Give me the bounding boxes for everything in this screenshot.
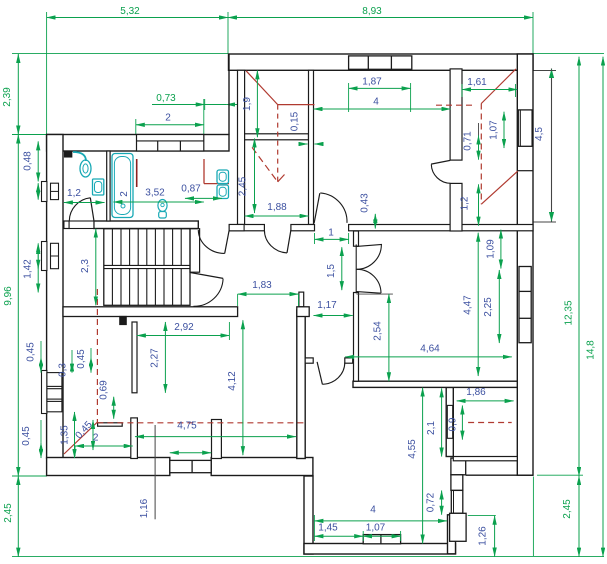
svg-text:1,83: 1,83 <box>252 280 272 291</box>
dimension 1,16 <box>139 425 155 519</box>
svg-text:0,73: 0,73 <box>156 93 176 104</box>
svg-text:4,47: 4,47 <box>463 295 474 315</box>
dimension 4 mid room <box>314 97 451 110</box>
door south hall <box>317 362 345 384</box>
svg-text:1,86: 1,86 <box>466 387 486 398</box>
wall dining stub <box>212 420 222 459</box>
fixture bathtub <box>112 154 133 218</box>
svg-text:4,75: 4,75 <box>177 421 197 432</box>
extension line 1,26 top <box>468 514 496 516</box>
outer wall right <box>517 54 533 475</box>
red mark washbasins <box>204 159 229 184</box>
svg-text:2,1: 2,1 <box>426 421 437 435</box>
dimension 2 bathtub <box>119 191 130 197</box>
window porch bottom <box>363 535 400 544</box>
mid-right room bottom wall <box>353 381 517 387</box>
wall shaft divider <box>245 134 309 140</box>
svg-text:1,07: 1,07 <box>366 523 386 534</box>
dimension 9,96 left <box>3 135 18 477</box>
SE window neck <box>451 490 463 513</box>
dimension 0,43 <box>360 193 376 229</box>
svg-text:2,25: 2,25 <box>483 297 494 317</box>
svg-text:2: 2 <box>93 433 99 444</box>
porch right wall <box>448 515 456 554</box>
window top wall <box>349 56 412 69</box>
svg-text:4: 4 <box>373 97 379 108</box>
window SE room left <box>447 405 452 438</box>
dimension 2,27 <box>150 322 166 393</box>
dimension 0,45 c <box>21 420 41 458</box>
svg-text:0,15: 0,15 <box>290 111 301 131</box>
window left 1 <box>42 182 59 202</box>
dimension 0,45 b <box>76 348 91 373</box>
svg-text:1,2: 1,2 <box>67 188 81 199</box>
dimension 4,55 <box>407 388 423 544</box>
fixture washbasin 2 <box>217 185 229 199</box>
svg-text:4,12: 4,12 <box>227 371 238 391</box>
dimension 2,92 <box>137 322 230 340</box>
wall bathroom divider <box>107 151 110 221</box>
svg-text:5,32: 5,32 <box>120 6 140 17</box>
svg-text:0,45: 0,45 <box>76 349 87 369</box>
wall top-right room left upper <box>450 69 462 160</box>
staircase <box>104 229 190 306</box>
dimension 1,42 left <box>23 245 39 292</box>
dimension 0,73 green <box>152 93 245 110</box>
fixture washbasin bathroom <box>93 179 104 195</box>
dimension 4 porch <box>314 505 447 542</box>
window bottom-left wall <box>170 460 211 472</box>
svg-text:0,48: 0,48 <box>23 151 34 171</box>
door bathroom <box>69 198 94 221</box>
wall hall-living divider <box>297 310 305 459</box>
wall double-door lower <box>354 293 359 382</box>
extension line bottom <box>12 556 604 558</box>
red shaft hatch upper <box>246 71 314 182</box>
dimension 1,88 <box>245 202 309 216</box>
dimension 2,54 <box>373 294 389 381</box>
dimension 2 top window <box>136 99 204 134</box>
dimension 1,07 window <box>489 112 505 148</box>
svg-text:1,2: 1,2 <box>460 196 471 210</box>
extension line top left corner <box>46 12 48 135</box>
svg-text:4: 4 <box>370 505 376 516</box>
svg-text:0,71: 0,71 <box>463 131 474 151</box>
dimension 0,9 <box>448 406 463 440</box>
dimension 4,64 <box>345 344 512 357</box>
wall kitchen lower <box>131 418 138 459</box>
dimension 2,45 left bottom <box>3 476 18 557</box>
window top-left block <box>137 135 204 152</box>
svg-text:1,42: 1,42 <box>23 259 34 279</box>
svg-text:8,93: 8,93 <box>362 6 382 17</box>
newel post <box>120 317 126 325</box>
dimension line 5,32 / 8,93 top <box>47 6 533 18</box>
wall step x229 <box>228 54 230 135</box>
dimension 4,75 <box>135 421 296 437</box>
svg-text:2,3: 2,3 <box>80 259 91 273</box>
svg-text:2,27: 2,27 <box>150 348 161 368</box>
dimension 4,12 <box>227 320 243 455</box>
extension line left y476 <box>12 475 47 477</box>
dimension 2,45 right <box>562 476 579 557</box>
dimension 2,25 <box>483 270 499 343</box>
svg-text:2,54: 2,54 <box>373 321 384 341</box>
outer wall bottom-left <box>47 458 313 476</box>
svg-text:0,72: 0,72 <box>426 492 437 512</box>
svg-text:2,39: 2,39 <box>2 87 13 107</box>
dimension 1,9 <box>242 70 257 137</box>
svg-text:1,61: 1,61 <box>467 77 487 88</box>
svg-text:0,45: 0,45 <box>21 426 32 446</box>
dimension 0,15 <box>290 111 323 144</box>
wall shaft right <box>309 70 314 224</box>
dimension 1,09 <box>486 230 501 269</box>
dimension 0,69 <box>99 380 114 419</box>
window left 3 <box>42 371 62 414</box>
svg-text:0,87: 0,87 <box>181 184 201 195</box>
door stair hall lower <box>190 273 223 307</box>
dimension 0,45 d <box>74 419 95 450</box>
extension line building top to left <box>12 53 228 55</box>
red chimney top-right <box>436 69 518 204</box>
svg-text:4,64: 4,64 <box>420 344 440 355</box>
dimension 1,45 1,07 <box>314 523 400 542</box>
extension line SE corner down <box>532 477 534 557</box>
dimension 2,3 <box>80 229 96 306</box>
dimension 0,45 a <box>26 341 42 373</box>
dimension ticks left piers <box>37 183 39 269</box>
door hall A <box>198 230 229 253</box>
SE pier lower <box>450 513 467 541</box>
dimension 0,48 left <box>23 141 39 181</box>
door jamb block hall north <box>229 225 244 231</box>
dimension 0,3 <box>58 350 73 377</box>
dimension 12,35 right <box>564 57 580 476</box>
wall bathroom bottom <box>64 221 198 229</box>
svg-text:14,8: 14,8 <box>586 340 597 360</box>
svg-text:12,35: 12,35 <box>564 300 575 325</box>
wall kitchen left <box>132 322 137 393</box>
svg-text:1,26: 1,26 <box>478 526 489 546</box>
dimension 1,87 <box>349 77 411 113</box>
svg-text:1,35: 1,35 <box>60 425 71 445</box>
dimension 1,61 <box>462 77 517 97</box>
svg-text:1,17: 1,17 <box>317 300 337 311</box>
svg-text:1,87: 1,87 <box>362 77 382 88</box>
window left 2 <box>42 242 59 271</box>
svg-text:1,09: 1,09 <box>486 239 497 259</box>
dimension 3,52 <box>113 188 203 203</box>
window right column <box>519 267 531 343</box>
fixture washbasin 1 <box>217 170 229 184</box>
dimension window bottom <box>170 452 211 454</box>
dimension 1,35 <box>60 412 75 458</box>
svg-text:0,43: 0,43 <box>360 193 371 213</box>
door top-right room <box>431 160 450 183</box>
svg-text:2,45: 2,45 <box>3 503 14 523</box>
svg-text:2,45: 2,45 <box>562 499 573 519</box>
extension line top right corner <box>532 12 534 54</box>
extension line top mid <box>227 12 229 54</box>
svg-text:1,07: 1,07 <box>489 120 500 140</box>
svg-text:4,5: 4,5 <box>534 127 545 141</box>
dimension 14,8 right <box>586 57 604 557</box>
porch bottom wall <box>304 544 456 555</box>
wall door stubs south hall <box>305 358 352 363</box>
wall stair hall right <box>190 229 200 273</box>
svg-text:2: 2 <box>165 113 171 124</box>
red shaft hatch lower <box>252 147 284 182</box>
dimension 1,83 <box>238 280 299 306</box>
dimension 2,45 shaft <box>238 139 255 214</box>
wall shower stub <box>65 151 72 157</box>
dimension 0,87 <box>181 184 222 199</box>
dimension 4,47 <box>463 233 479 376</box>
door mid room <box>314 193 347 223</box>
porch left wall <box>304 476 313 554</box>
dimension 1,86 <box>457 387 514 401</box>
window right 1 <box>518 110 532 146</box>
red dashed SE room <box>468 422 512 424</box>
extension line right y475 <box>537 474 583 476</box>
dimension 1,2 bathroom <box>64 188 105 203</box>
fixture shower <box>73 152 91 177</box>
extension line right top <box>533 53 604 55</box>
dimension 1,5 <box>326 247 342 290</box>
red mark bathtub <box>136 159 138 187</box>
svg-text:3,52: 3,52 <box>145 188 165 199</box>
dimension 0,72 <box>426 491 442 515</box>
wall hall north <box>195 225 533 231</box>
outer wall top-left block <box>47 135 229 152</box>
dimension 1,26 <box>478 516 495 557</box>
SE room left wall <box>446 387 453 456</box>
wall shaft left <box>238 70 245 224</box>
dimension 2 kitchen <box>75 433 133 457</box>
svg-text:2,45: 2,45 <box>238 176 249 196</box>
svg-text:9,96: 9,96 <box>3 286 14 306</box>
wall top-right room left lower <box>450 183 462 231</box>
fixture toilet <box>158 200 167 219</box>
slab edge stair hall <box>63 307 309 317</box>
svg-text:0,69: 0,69 <box>99 380 110 400</box>
SE pier mid <box>451 475 463 491</box>
dimension 1,17 <box>314 300 353 316</box>
outer wall left <box>47 135 63 459</box>
svg-text:0,45: 0,45 <box>26 342 37 362</box>
dimension 2,39 left <box>2 54 18 135</box>
svg-text:0,9: 0,9 <box>448 417 459 431</box>
svg-text:1,16: 1,16 <box>139 498 150 518</box>
wall kitchen counter <box>98 423 123 426</box>
ledge line right wall <box>517 170 533 172</box>
svg-text:2,92: 2,92 <box>174 322 194 333</box>
extension line left y135 <box>12 134 47 136</box>
outer wall top <box>229 54 534 70</box>
svg-text:1,5: 1,5 <box>326 264 337 278</box>
svg-text:2: 2 <box>119 191 130 197</box>
dimension 4,5 right <box>520 69 556 223</box>
svg-text:1,9: 1,9 <box>242 97 253 111</box>
svg-text:1,88: 1,88 <box>267 202 287 213</box>
double door <box>356 244 393 294</box>
red dashed riser line <box>64 289 305 454</box>
dimension 1 door <box>315 228 349 245</box>
door hall B <box>264 230 291 253</box>
wall stub above divider <box>299 292 304 307</box>
dimension 0,71 <box>463 123 479 160</box>
SE step wall line <box>466 474 533 476</box>
wall double-door upper <box>354 231 359 246</box>
dimension 2,1 <box>426 388 442 456</box>
SE room bottom wall <box>453 457 517 461</box>
svg-text:1: 1 <box>328 228 334 239</box>
svg-text:4,55: 4,55 <box>407 439 418 459</box>
SE pier upper <box>451 458 466 475</box>
dimension 1,2 right <box>460 184 479 225</box>
svg-text:0,3: 0,3 <box>58 363 69 377</box>
svg-text:1,45: 1,45 <box>318 523 338 534</box>
